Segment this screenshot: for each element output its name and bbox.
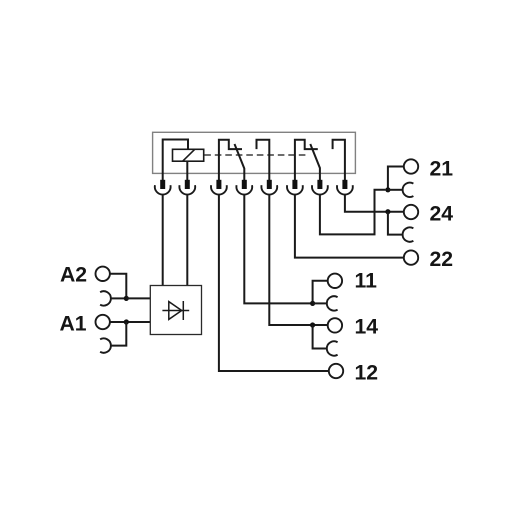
terminal 21 second-level arc (403, 183, 414, 197)
wire A2 node to rectifier (126, 297, 150, 299)
pin 2 plug (185, 180, 190, 189)
svg-text:12: 12 (355, 362, 379, 385)
terminal 24 second-level arc (403, 227, 414, 241)
diode V1 triangle (169, 302, 182, 320)
wire pin1 to rectifier (162, 194, 164, 285)
terminal A2 circle (96, 267, 110, 281)
wire A1 circle to rectifier (110, 321, 150, 323)
pin 1 plug (160, 180, 165, 189)
socket arc pin3 (211, 185, 227, 194)
wire 21 circle to node (388, 167, 404, 190)
wire node to 11 arc (313, 302, 327, 304)
socket arc pin8 (337, 185, 353, 194)
coil lead pin1 (163, 140, 188, 182)
contact 2 moving arm (pin7) (310, 144, 320, 181)
node 14 junction (310, 322, 315, 327)
rectifier box (150, 286, 201, 335)
wire node to 21 arc (388, 189, 403, 191)
terminal 14 second-level arc (327, 341, 338, 355)
wire node 14 down to arc (313, 325, 327, 349)
wire A2 circle to node (110, 274, 126, 299)
svg-text:14: 14 (355, 315, 379, 338)
socket arc pin1 (155, 185, 171, 194)
actuation dashed line (204, 154, 309, 156)
socket arc pin5 (261, 185, 277, 194)
pin 3 plug (216, 180, 221, 189)
wire pin2 to rectifier (186, 194, 188, 285)
socket arc pin2 (179, 185, 195, 194)
pin 7 plug (317, 180, 322, 189)
pin 8 plug (342, 180, 347, 189)
svg-text:A1: A1 (60, 313, 87, 336)
pin 5 plug (267, 180, 272, 189)
terminal 21 circle (404, 159, 418, 173)
wire node 24 down to arc (388, 212, 403, 235)
socket arc pin4 (236, 185, 252, 194)
node A1 junction (124, 319, 129, 324)
wire A1 arc to node (111, 322, 126, 346)
contact 2 NO fixed lead (pin8) (333, 140, 345, 181)
terminal A1 circle (96, 315, 110, 329)
contact 2 NC fixed lead (pin6) (295, 140, 318, 181)
terminal A2 second-level arc (100, 291, 111, 305)
svg-text:24: 24 (430, 203, 454, 226)
node A2 junction (124, 296, 129, 301)
svg-text:A2: A2 (60, 264, 87, 287)
terminal 14 circle (328, 318, 342, 332)
contact 1 moving arm (pin4) (235, 144, 245, 181)
terminal A1 second-level arc (100, 338, 111, 352)
svg-text:22: 22 (430, 248, 454, 271)
socket arc pin7 (312, 185, 328, 194)
relay coil K1 (173, 149, 204, 161)
relay outline box (153, 132, 356, 173)
pin 4 plug (242, 180, 247, 189)
node 21 junction (385, 187, 390, 192)
pin 6 plug (292, 180, 297, 189)
socket arc pin6 (287, 185, 303, 194)
terminal 24 circle (404, 205, 418, 219)
coil diagonal (183, 150, 195, 161)
contact 1 NC fixed lead (pin3) (219, 140, 242, 181)
node 11 junction (310, 301, 315, 306)
terminal 11 second-level arc (327, 296, 338, 310)
diode V1 lead (162, 310, 189, 312)
svg-text:21: 21 (430, 158, 454, 181)
terminal 22 circle (404, 250, 418, 264)
wire pin4 to node 11 (244, 194, 312, 303)
wire pin3 to terminal 12 (219, 194, 329, 371)
wire pin8 to node 24 (345, 194, 404, 211)
wire pin6 to terminal 22 (295, 194, 404, 257)
diode V1 cathode bar (182, 301, 184, 320)
wire node 14 to circle (313, 324, 328, 326)
wire pin5 to node 14 (269, 194, 312, 325)
terminal 11 circle (328, 274, 342, 288)
svg-text:11: 11 (355, 270, 378, 293)
contact 1 NO fixed lead (pin5) (257, 140, 270, 181)
wire pin7 to node 21 (320, 190, 386, 235)
wire A2 arc to node (111, 297, 126, 299)
coil lead pin2 (186, 161, 188, 181)
terminal 12 circle (329, 364, 343, 378)
node 24 junction (385, 209, 390, 214)
wire 11 circle to node (313, 281, 328, 304)
